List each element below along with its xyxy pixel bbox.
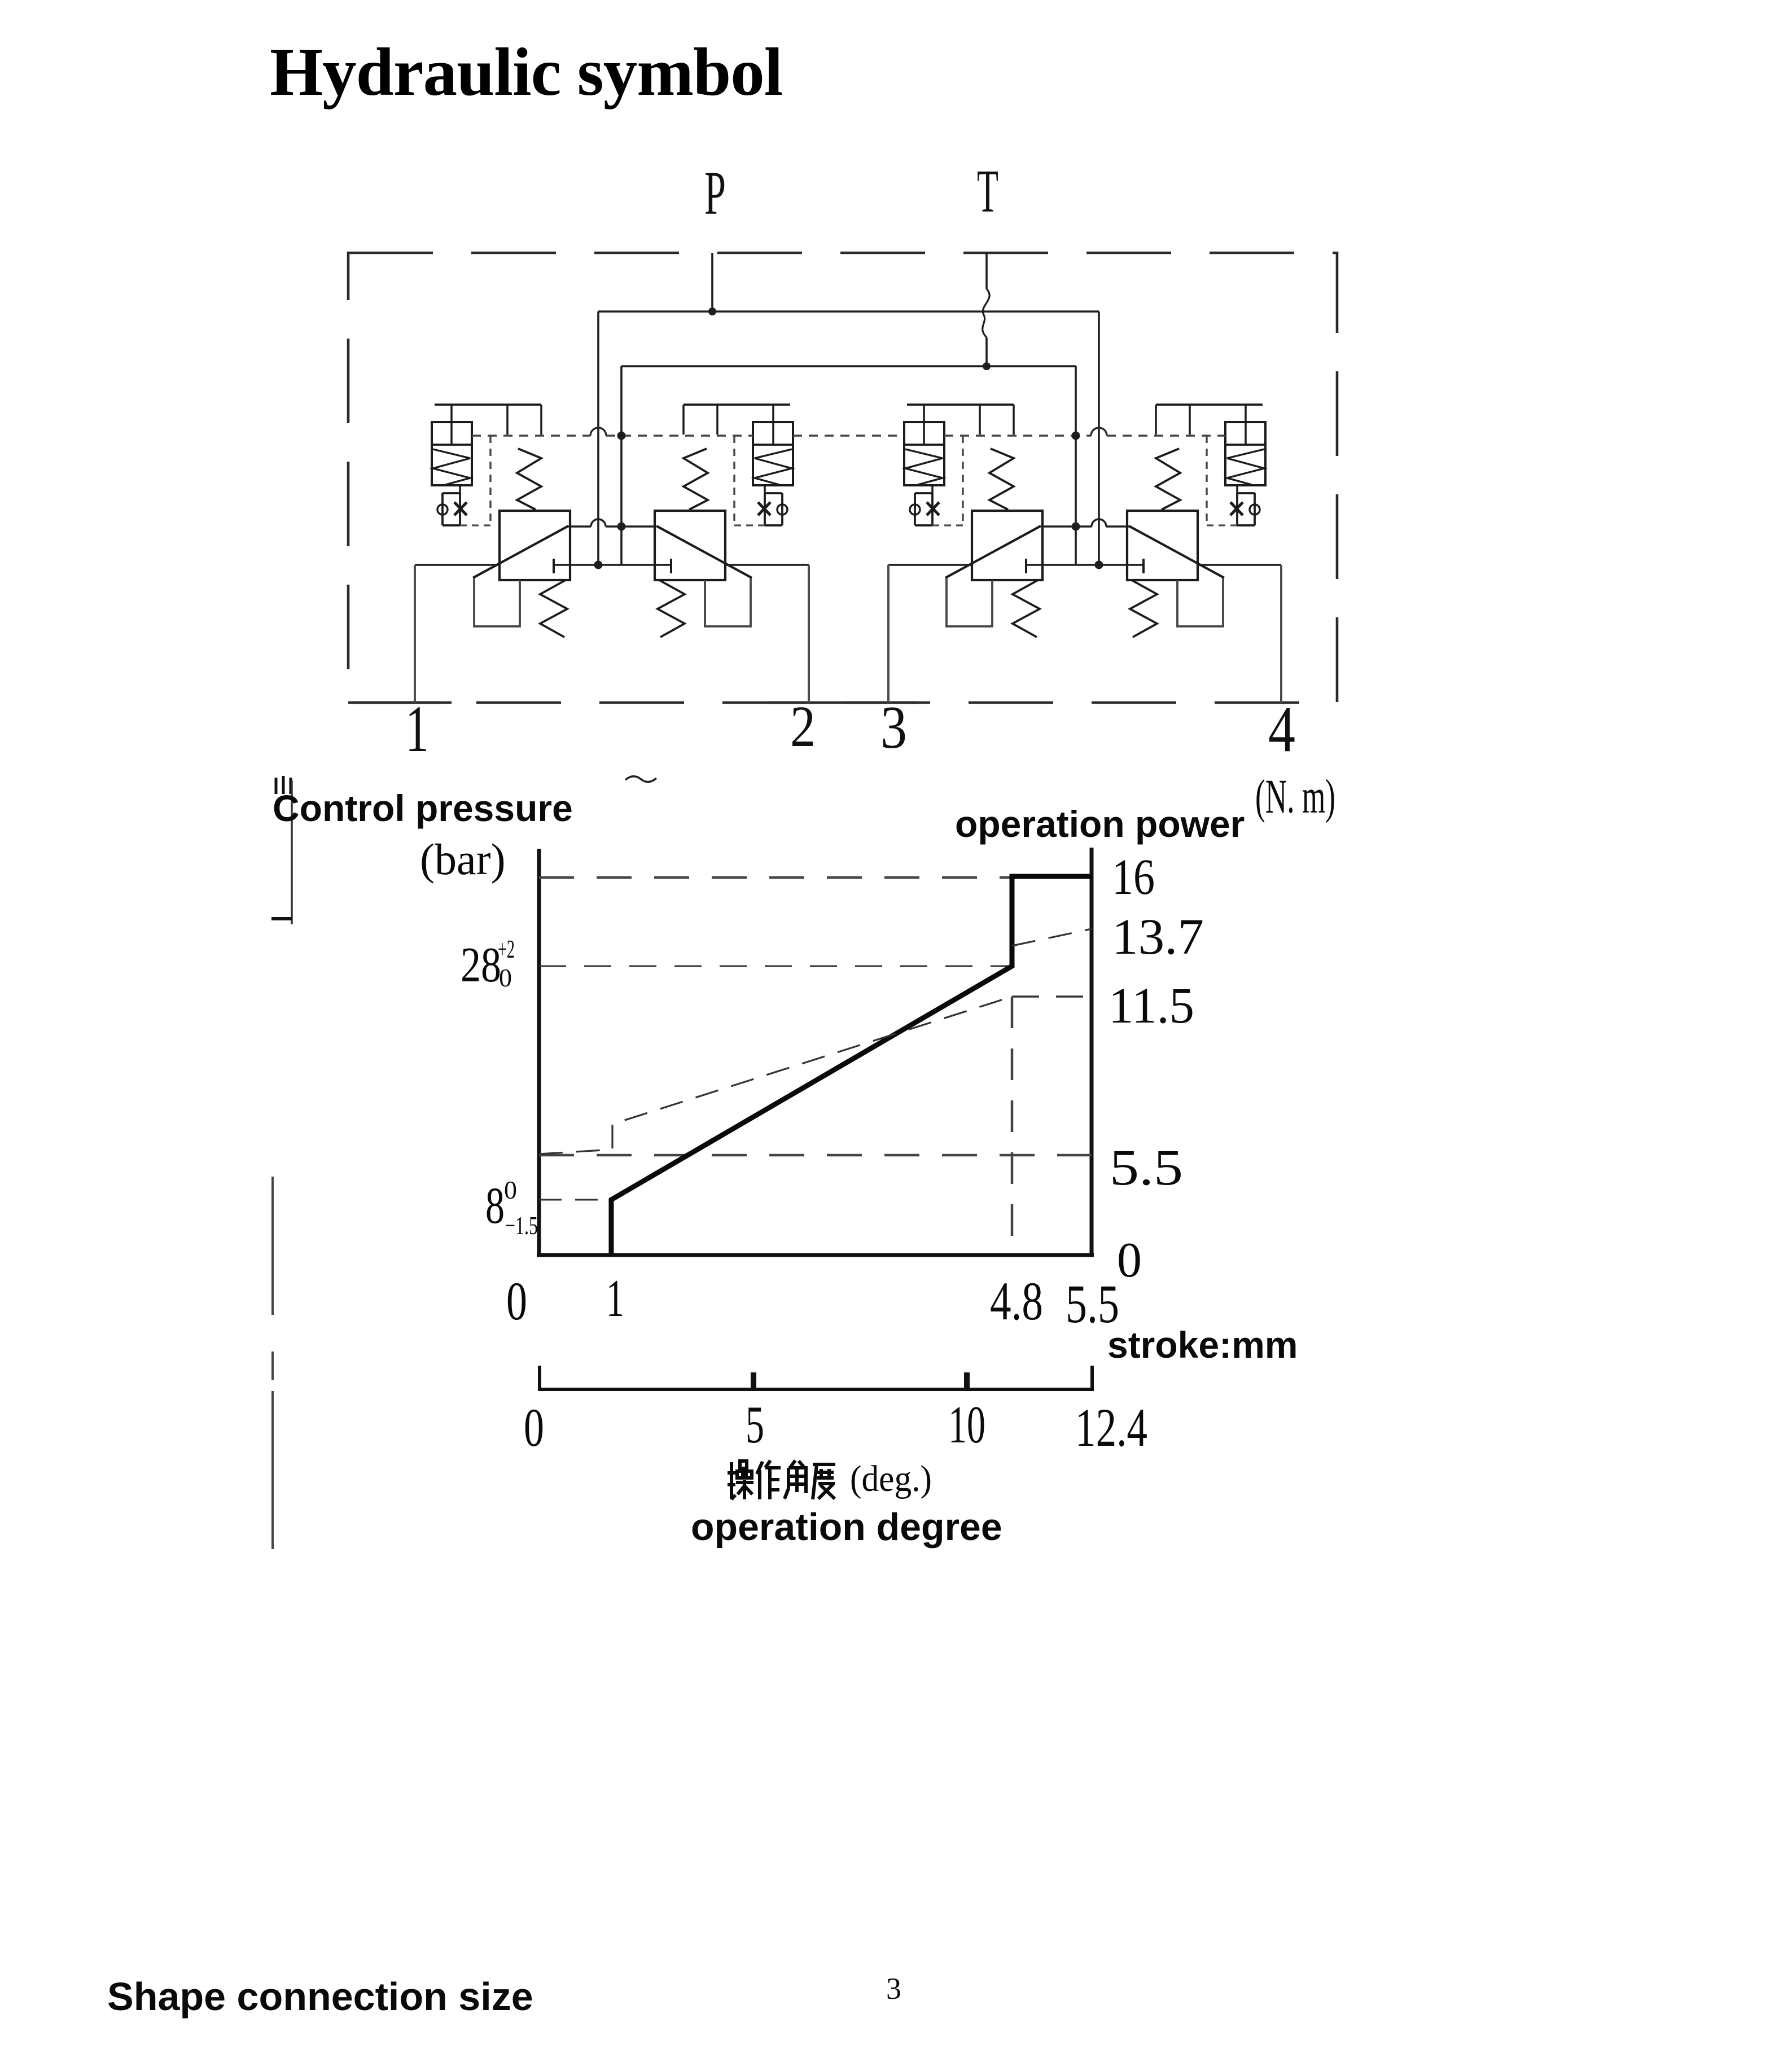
svg-text:+2: +2 (498, 935, 515, 963)
wire P rail (598, 310, 1099, 313)
stray dimension line mid (271, 1177, 274, 1315)
work gallery wire B (1027, 564, 1142, 566)
svg-text:0: 0 (504, 1175, 517, 1204)
wire T rail (621, 365, 1076, 367)
svg-text:4: 4 (1268, 694, 1295, 766)
node T junction (983, 362, 991, 370)
svg-text:P: P (704, 159, 726, 227)
svg-text:10: 10 (948, 1396, 985, 1454)
svg-text:4.8: 4.8 (990, 1271, 1043, 1331)
svg-text:5.5: 5.5 (1110, 1140, 1183, 1196)
port 3 drop wire (887, 565, 890, 703)
svg-text:Shape connection size: Shape connection size (107, 1975, 533, 2019)
wire T feeder right (1075, 366, 1077, 565)
wire P drop (711, 253, 713, 312)
graph bottom axis (537, 1253, 1094, 1257)
svg-text:0: 0 (499, 963, 512, 992)
svg-text:3: 3 (886, 1972, 901, 2006)
port 1 drop wire (414, 565, 416, 703)
svg-text:12.4: 12.4 (1075, 1397, 1147, 1458)
port 4 drop wire (1280, 565, 1282, 703)
bridge hop over P left (591, 519, 606, 527)
graph right axis (1090, 848, 1094, 1255)
svg-text:Control pressure: Control pressure (273, 787, 573, 829)
CJK char 3 (approximated) (791, 1460, 804, 1467)
work gallery wire A (555, 564, 670, 566)
wire P feeder right (1098, 312, 1100, 565)
node bridge-T left (617, 523, 626, 531)
svg-text:0: 0 (1117, 1233, 1142, 1288)
svg-text:stroke:mm: stroke:mm (1107, 1324, 1298, 1366)
svg-text:0: 0 (506, 1271, 527, 1331)
svg-text:(deg.): (deg.) (850, 1458, 932, 1499)
pilot drain dashed gallery A (472, 435, 753, 436)
enclosure dashed border (348, 253, 1337, 703)
svg-text:0: 0 (524, 1397, 544, 1458)
CJK char 2 (approximated) (757, 1462, 763, 1499)
pilot drain hop over P left (590, 428, 606, 436)
port 2 drop wire (808, 565, 810, 703)
gridline 5.5 (539, 1154, 1092, 1157)
gridline 16 (539, 876, 1012, 879)
valve section 2 (mirrored) (655, 405, 793, 637)
svg-text:T: T (977, 158, 998, 225)
graph left axis (537, 849, 541, 1255)
gridline 28 (539, 966, 1010, 967)
stray dimension line upper (291, 780, 293, 924)
gridline 8 (539, 1199, 611, 1201)
node bridge-T right (1072, 523, 1080, 531)
valve section 4 (mirrored) (1127, 405, 1265, 637)
operation power dashed curve (539, 997, 1012, 1154)
node pilot drain to T left (617, 432, 626, 440)
svg-text:3: 3 (880, 694, 907, 761)
degree scale mid tick 10 (964, 1372, 970, 1389)
svg-text:operation degree: operation degree (691, 1506, 1002, 1548)
svg-text:8: 8 (485, 1177, 505, 1234)
stray dimension line lower (271, 1391, 274, 1549)
work port wire 4 (1198, 564, 1281, 566)
wire T feeder left (620, 366, 623, 565)
node P-gallery left (594, 561, 603, 569)
tank bridge wire B (1042, 525, 1129, 528)
node P junction (708, 308, 716, 315)
CJK char 4 (approximated) (813, 1464, 835, 1499)
wire P feeder left (597, 312, 599, 565)
svg-text:11.5: 11.5 (1109, 978, 1194, 1034)
svg-text:1: 1 (606, 1269, 624, 1328)
stray dimension ticks above Control (276, 776, 291, 794)
pilot drain dashed gallery middle (793, 435, 904, 436)
svg-text:28: 28 (461, 938, 501, 993)
svg-text:(N. m): (N. m) (1255, 769, 1335, 823)
pilot drain hop over P right (1091, 428, 1107, 436)
degree scale mid tick 5 (751, 1372, 756, 1389)
stray arrow dash (271, 917, 292, 920)
svg-text:13.7: 13.7 (1112, 909, 1204, 965)
degree scale end tick right (1090, 1366, 1094, 1389)
gridline 11.5 (1012, 995, 1092, 998)
node pilot drain to T right (1072, 432, 1080, 440)
svg-text:2: 2 (790, 694, 816, 759)
T line break symbol (983, 289, 989, 337)
wire T drop lower (985, 337, 988, 366)
svg-text:−1.5: −1.5 (505, 1211, 538, 1240)
pilot drain dashed gallery B (944, 435, 1225, 436)
gridline vertical 4.8 (1011, 997, 1014, 1255)
border solid segment bottom-middle (770, 701, 917, 704)
border solid segment bottom-left (348, 701, 452, 704)
valve section 3 (904, 405, 1042, 637)
stray dimension dash (271, 1352, 274, 1380)
operation power dashed curve upper (1012, 929, 1092, 946)
tank bridge wire A (568, 525, 655, 528)
svg-text:Hydraulic symbol: Hydraulic symbol (270, 34, 782, 110)
degree scale bar (538, 1388, 1094, 1391)
svg-text:5: 5 (746, 1396, 764, 1454)
bridge hop over P right (1092, 519, 1106, 527)
svg-text:(bar): (bar) (420, 835, 506, 884)
work port wire 2 (725, 564, 809, 566)
svg-text:16: 16 (1112, 849, 1155, 905)
degree scale end tick left (538, 1366, 541, 1389)
svg-text:1: 1 (405, 692, 429, 766)
valve section 1 (432, 405, 570, 637)
wire T drop upper (985, 253, 988, 289)
work port wire 3 (888, 564, 972, 566)
CJK char 1 (approximated) (728, 1462, 735, 1499)
node P-gallery right (1095, 561, 1103, 569)
svg-text:operation power: operation power (955, 803, 1245, 845)
work port wire 1 (415, 564, 500, 566)
stray mark tilde (625, 776, 656, 782)
control pressure bold curve (611, 876, 1092, 1255)
